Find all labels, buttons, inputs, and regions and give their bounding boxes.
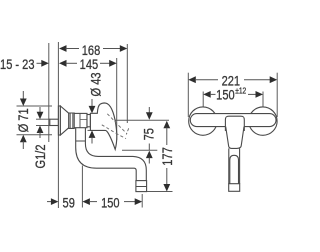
extension line 150+-12 right (262, 92, 264, 108)
collar (87, 115, 90, 127)
dimension 150 (89, 194, 142, 211)
dimension 177 (159, 121, 176, 192)
escutcheon face (58, 106, 60, 135)
reference line outlet bottom (147, 191, 173, 193)
wall line (48, 43, 50, 142)
union cylinder (74, 113, 87, 127)
union nut (69, 113, 74, 128)
svg-text:59: 59 (63, 194, 75, 211)
dimension 75 (140, 107, 157, 164)
svg-text:150: 150 (101, 194, 119, 211)
handle open position dashed (102, 114, 129, 139)
extension line 150 right (141, 194, 143, 208)
spout end bend (133, 156, 146, 180)
svg-text:Ø 71: Ø 71 (15, 108, 32, 132)
aerator side (136, 181, 147, 192)
body cone front (226, 127, 244, 149)
svg-text:±12: ±12 (235, 86, 246, 96)
dimension Ø71 (15, 91, 52, 149)
extension line escutcheon face (57, 42, 59, 208)
extension line 221 left (187, 73, 189, 117)
dimension 221 (188, 72, 277, 89)
svg-text:145: 145 (80, 55, 98, 72)
axis reference line (109, 119, 169, 121)
extension line 150+-12 left (202, 92, 204, 108)
dimension 168 (59, 42, 127, 59)
spout elbow down-right (76, 141, 135, 168)
body block with handle lever (90, 103, 116, 149)
svg-text:150: 150 (216, 86, 234, 103)
right escutcheon circle (249, 107, 277, 135)
extension line 168 right (126, 44, 128, 123)
spout socket (76, 128, 86, 141)
spout bend arch front (230, 155, 239, 183)
dimension Ø43 (87, 73, 104, 144)
G1/2 square nipple (50, 119, 59, 125)
svg-text:177: 177 (159, 147, 176, 165)
extension line 145 right (116, 58, 118, 140)
dimension 15-23 (0, 55, 49, 72)
dimension 145 (59, 55, 117, 72)
left escutcheon circle (189, 107, 217, 135)
aerator front (229, 184, 240, 192)
svg-text:15 - 23: 15 - 23 (0, 55, 34, 72)
extension line 59 right / 150 left (81, 166, 83, 208)
spout column front (229, 148, 240, 183)
svg-text:75: 75 (140, 128, 157, 140)
svg-text:G1/2: G1/2 (32, 145, 49, 169)
dimension G1/2 (32, 107, 50, 168)
dimension 59 (47, 194, 90, 211)
body bar (190, 114, 276, 127)
dimension 150+-12 (203, 86, 263, 103)
extension line 221 right (276, 73, 278, 117)
reference line spout top (75 bottom ref) (122, 149, 157, 151)
escutcheon cone (60, 106, 68, 135)
svg-text:Ø 43: Ø 43 (87, 73, 104, 97)
handle front (225, 116, 244, 131)
